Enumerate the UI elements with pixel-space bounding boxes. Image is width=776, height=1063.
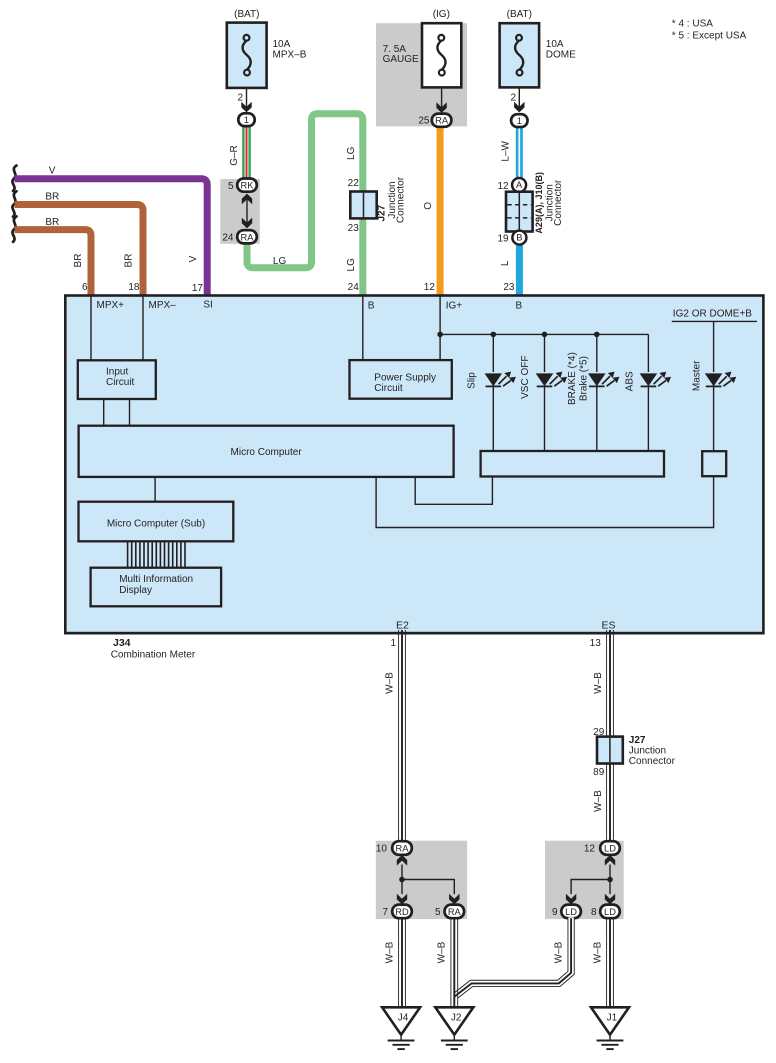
combination meter box xyxy=(65,296,763,634)
svg-text:Master: Master xyxy=(692,360,703,391)
svg-text:LG: LG xyxy=(273,256,287,267)
ground J4 xyxy=(382,1007,420,1049)
svg-text:LG: LG xyxy=(346,146,357,160)
connector ring A xyxy=(512,178,526,192)
svg-text:RK: RK xyxy=(241,181,255,191)
node junction brake xyxy=(594,332,600,338)
svg-text:A29(A), J10(B): A29(A), J10(B) xyxy=(534,172,544,234)
svg-text:Power Supply: Power Supply xyxy=(374,373,436,384)
fuse GAUGE box xyxy=(422,23,461,87)
svg-text:(BAT): (BAT) xyxy=(234,9,259,20)
svg-text:23: 23 xyxy=(348,223,360,234)
connector oval RA (10) xyxy=(392,841,412,855)
svg-text:* 4 : USA: * 4 : USA xyxy=(672,18,713,29)
svg-text:V: V xyxy=(188,255,199,262)
bottom border repaint xyxy=(65,632,763,635)
arrow into connector RA xyxy=(436,102,446,113)
harness squiggle BR lower xyxy=(12,216,16,242)
wire master cathode xyxy=(713,387,715,451)
node junction xyxy=(399,877,405,883)
svg-text:19: 19 xyxy=(497,233,509,244)
svg-text:O: O xyxy=(423,202,434,210)
wire fuse to connector 1 xyxy=(518,87,520,110)
svg-text:(IG): (IG) xyxy=(433,9,450,20)
svg-text:V: V xyxy=(49,165,56,176)
svg-text:ABS: ABS xyxy=(625,371,636,391)
wire vsc anode xyxy=(544,334,546,372)
connector oval 1 xyxy=(511,114,527,127)
svg-text:23: 23 xyxy=(503,282,515,293)
svg-text:LG: LG xyxy=(346,258,357,272)
connector oval LD (9) xyxy=(561,905,581,919)
svg-text:RA: RA xyxy=(435,116,449,126)
svg-text:10: 10 xyxy=(376,844,388,855)
svg-text:W–B: W–B xyxy=(592,941,603,963)
connector oval RA (25) xyxy=(432,114,452,127)
svg-text:Connector: Connector xyxy=(395,176,406,223)
svg-text:* 5 : Except USA: * 5 : Except USA xyxy=(672,30,747,41)
svg-text:17: 17 xyxy=(192,283,204,294)
svg-text:J1: J1 xyxy=(607,1013,618,1024)
wire slip anode xyxy=(492,334,494,372)
wire W-B RD(7) to J4 xyxy=(399,918,406,1007)
micro computer (sub) box xyxy=(79,502,234,542)
svg-text:2: 2 xyxy=(510,93,516,104)
multi information display box xyxy=(91,568,222,607)
wire input to micro computer (left) xyxy=(103,399,105,426)
arrow down to RA(5) xyxy=(449,894,459,905)
svg-text:E2: E2 xyxy=(396,620,409,632)
arrow down to LD(8) xyxy=(605,894,615,905)
junction connector A29/J10 box xyxy=(506,192,533,232)
svg-text:RA: RA xyxy=(396,844,410,854)
fuse element xyxy=(243,41,251,70)
wire abs cathode xyxy=(647,387,649,451)
svg-text:W–B: W–B xyxy=(384,672,395,694)
connector shield bottom-left backdrop xyxy=(376,841,467,919)
node junction slip xyxy=(491,332,497,338)
svg-text:IG+: IG+ xyxy=(446,301,463,312)
arrow up to LD(12) xyxy=(605,855,615,866)
svg-text:L–W: L–W xyxy=(500,140,511,161)
connector oval RD (7) xyxy=(392,905,412,919)
svg-text:9: 9 xyxy=(552,907,558,918)
svg-text:BR: BR xyxy=(45,217,59,228)
svg-text:G–R: G–R xyxy=(229,145,240,166)
junction connector J27 box xyxy=(350,192,376,219)
svg-text:24: 24 xyxy=(222,233,234,244)
svg-text:7: 7 xyxy=(382,907,388,918)
wire IG2 bus underline xyxy=(672,320,757,322)
input circuit box xyxy=(78,360,156,399)
wire input to micro computer (right) xyxy=(129,399,131,426)
LED VSC OFF xyxy=(536,372,567,387)
svg-text:W–B: W–B xyxy=(384,941,395,963)
harness squiggle V xyxy=(12,166,16,192)
svg-text:SI: SI xyxy=(203,299,212,310)
fuse element xyxy=(515,41,523,70)
connector shield bottom-right backdrop xyxy=(545,841,624,919)
svg-text:RD: RD xyxy=(395,907,409,917)
svg-text:L: L xyxy=(500,260,511,266)
svg-text:W–B: W–B xyxy=(593,672,604,694)
svg-text:W–B: W–B xyxy=(593,790,604,812)
svg-text:BRAKE (*4): BRAKE (*4) xyxy=(567,352,578,405)
wire micro computer to sub xyxy=(154,477,156,502)
svg-text:13: 13 xyxy=(590,638,602,649)
wire abs anode xyxy=(647,334,649,372)
wire L-W from fuse DOME to junction A xyxy=(516,127,523,179)
wire brake anode xyxy=(596,334,598,372)
wire fuse to connector RA xyxy=(441,87,443,110)
wire RA(10) to junction xyxy=(401,865,403,880)
connector oval 1 xyxy=(238,113,254,126)
svg-text:1: 1 xyxy=(517,116,522,126)
svg-text:Micro Computer: Micro Computer xyxy=(231,447,303,458)
svg-text:Input: Input xyxy=(106,366,128,377)
svg-text:J34: J34 xyxy=(113,637,131,649)
node junction xyxy=(607,877,613,883)
LED BRAKE xyxy=(588,372,619,387)
wire junction to RA(5) xyxy=(402,880,454,895)
fuse DOME box xyxy=(500,23,539,87)
wire BR (brown) to pin 18 MPX- xyxy=(15,205,144,297)
svg-text:22: 22 xyxy=(348,178,360,189)
svg-text:Connector: Connector xyxy=(553,179,564,226)
connector oval RA (5) xyxy=(445,905,465,919)
wire master driver to micro computer xyxy=(376,476,713,527)
svg-text:25: 25 xyxy=(418,116,430,127)
wire W-B RA(5) to J2 xyxy=(451,918,458,1007)
micro computer box xyxy=(79,426,454,477)
svg-text:ES: ES xyxy=(601,620,615,632)
svg-text:2: 2 xyxy=(237,93,243,104)
master driver box xyxy=(702,451,726,476)
arrow into connector 1 xyxy=(514,102,524,113)
ground J2 xyxy=(435,1007,473,1049)
svg-text:J2: J2 xyxy=(451,1013,462,1024)
svg-text:Circuit: Circuit xyxy=(374,383,403,394)
svg-text:J4: J4 xyxy=(398,1013,409,1024)
svg-text:GAUGE: GAUGE xyxy=(383,54,419,65)
svg-text:RA: RA xyxy=(241,232,255,242)
arrow down to RD(7) xyxy=(397,894,407,905)
wire LG from RA(24) up over to J27 and pin 24 B xyxy=(247,114,363,296)
wire pin6 to input circuit xyxy=(90,296,92,360)
connector shield RK/RA backdrop xyxy=(220,179,259,244)
svg-text:6: 6 xyxy=(82,282,88,293)
LED Master xyxy=(705,372,736,387)
power supply circuit box xyxy=(350,360,452,399)
wire V (violet) to pin 17 SI xyxy=(15,179,208,296)
connector ring B xyxy=(512,231,526,245)
svg-text:A: A xyxy=(516,180,523,190)
connector oval LD (12) xyxy=(600,841,620,855)
wire pin18 to input circuit xyxy=(142,296,144,360)
svg-text:Junction: Junction xyxy=(629,746,666,757)
LED ABS xyxy=(640,372,671,387)
wire LED feed bus xyxy=(440,333,648,335)
svg-text:Slip: Slip xyxy=(467,372,478,389)
arrow down to LD(9) xyxy=(566,894,576,905)
svg-text:W–B: W–B xyxy=(553,941,564,963)
svg-text:1: 1 xyxy=(244,115,249,125)
node junction on IG+ line xyxy=(437,332,443,338)
wire pin12 IG+ to power supply xyxy=(439,296,441,360)
svg-text:MPX+: MPX+ xyxy=(97,300,125,311)
svg-text:RA: RA xyxy=(448,907,462,917)
fuse MPX-B box xyxy=(227,23,267,88)
svg-text:Connector: Connector xyxy=(629,756,676,767)
svg-text:12: 12 xyxy=(584,844,596,855)
svg-text:B: B xyxy=(516,233,522,243)
fuse element xyxy=(437,41,445,70)
LED Slip xyxy=(485,372,516,387)
wire W-B from J27 to LD(12) xyxy=(607,764,614,842)
svg-text:LD: LD xyxy=(604,907,616,917)
svg-text:24: 24 xyxy=(348,282,360,293)
svg-text:10A: 10A xyxy=(546,39,564,50)
svg-text:BR: BR xyxy=(45,191,59,202)
wire pin24 to power supply xyxy=(362,296,364,360)
svg-text:8: 8 xyxy=(591,907,597,918)
svg-text:W–B: W–B xyxy=(437,941,448,963)
wire O from fuse GAUGE to pin 12 IG+ xyxy=(437,127,444,296)
wire vsc cathode xyxy=(544,387,546,451)
svg-text:VSC OFF: VSC OFF xyxy=(520,356,531,399)
svg-text:B: B xyxy=(368,301,375,312)
svg-text:MPX–B: MPX–B xyxy=(273,50,307,61)
svg-text:89: 89 xyxy=(593,767,605,778)
wire BR (brown) to pin 6 MPX+ xyxy=(15,230,92,296)
wire junction to LD(9) xyxy=(571,880,610,895)
arrow into connector 1 xyxy=(241,102,251,113)
connector oval RK (5) xyxy=(237,179,257,192)
connector shield (IG) gauge fuse backdrop xyxy=(376,23,467,126)
svg-text:Display: Display xyxy=(119,585,152,596)
svg-text:BR: BR xyxy=(73,254,84,268)
svg-text:Multi Information: Multi Information xyxy=(119,574,193,585)
svg-text:(BAT): (BAT) xyxy=(507,9,532,20)
node junction vsc xyxy=(542,332,548,338)
svg-text:Brake (*5): Brake (*5) xyxy=(578,356,589,401)
wire junction to LD(8) xyxy=(609,880,611,895)
wire driver box to micro computer xyxy=(415,477,492,505)
wire W-B LD(8) to J1 xyxy=(607,918,614,1007)
svg-text:Micro Computer (Sub): Micro Computer (Sub) xyxy=(107,519,205,530)
svg-text:1: 1 xyxy=(390,638,396,649)
LED driver box xyxy=(481,451,664,477)
svg-text:DOME: DOME xyxy=(546,50,576,61)
svg-text:Circuit: Circuit xyxy=(106,377,135,388)
svg-text:BR: BR xyxy=(124,254,135,268)
arrow up to RA(10) xyxy=(397,855,407,866)
svg-text:IG2 OR DOME+B: IG2 OR DOME+B xyxy=(673,308,753,319)
wire LD(12) to junction xyxy=(609,865,611,880)
wire W-B LD(9) branch to J2 xyxy=(455,917,571,996)
wire master anode xyxy=(713,321,715,372)
svg-text:MPX–: MPX– xyxy=(149,300,177,311)
connector oval LD (8) xyxy=(600,905,620,919)
svg-text:LD: LD xyxy=(565,907,577,917)
junction connector J27 box xyxy=(597,737,623,764)
connector oval RA (24) xyxy=(237,230,257,243)
wire brake cathode xyxy=(596,387,598,451)
wire slip cathode xyxy=(492,387,494,451)
svg-text:LD: LD xyxy=(604,844,616,854)
wire W-B from E2 pin 1 xyxy=(399,630,406,842)
svg-text:12: 12 xyxy=(424,282,436,293)
harness squiggle BR upper xyxy=(12,191,16,217)
wire RK to RA with arrows xyxy=(246,196,248,228)
svg-text:5: 5 xyxy=(435,907,441,918)
svg-text:5: 5 xyxy=(228,181,234,192)
wire W-B from ES pin 13 to J27 xyxy=(607,630,614,737)
ribbon hatch between sub and display xyxy=(128,541,185,567)
svg-text:J27: J27 xyxy=(629,735,646,746)
wire junction to RD(7) xyxy=(401,880,403,895)
svg-text:Combination Meter: Combination Meter xyxy=(111,650,196,661)
svg-text:18: 18 xyxy=(128,282,140,293)
wire G-R stripes xyxy=(243,124,249,180)
ground J1 xyxy=(591,1007,629,1049)
svg-text:10A: 10A xyxy=(273,39,291,50)
svg-text:J27: J27 xyxy=(376,204,387,221)
wire fuse to connector 1 xyxy=(246,88,248,110)
wire L from junction B to pin 23 B xyxy=(516,244,523,297)
svg-text:B: B xyxy=(516,301,523,312)
